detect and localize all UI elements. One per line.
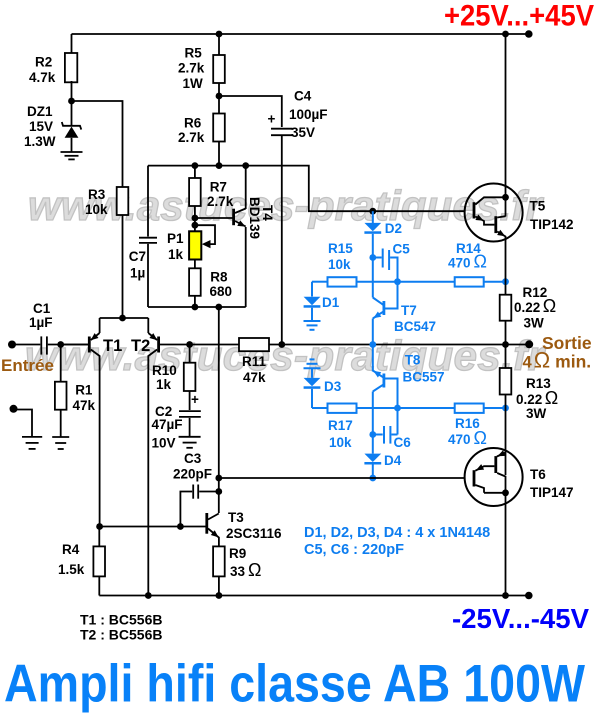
node: box top left junction R7	[192, 162, 199, 169]
svg-text:P1: P1	[167, 231, 184, 246]
svg-text:T5: T5	[530, 199, 546, 214]
node: box top right junction	[242, 162, 249, 169]
svg-text:3W: 3W	[524, 316, 545, 331]
node: R14 tap on output line	[502, 278, 509, 285]
svg-text:BC547: BC547	[394, 319, 436, 334]
wire: R17/R16 rail	[312, 407, 328, 409]
svg-text:D4: D4	[384, 453, 402, 468]
wire: blue center line D2 segment	[372, 211, 374, 223]
resistor R10	[189, 345, 191, 363]
node: R5/R6 junction	[216, 93, 223, 100]
svg-text:R17: R17	[328, 418, 353, 433]
svg-text:33Ω: 33Ω	[230, 560, 262, 580]
resistor R5	[213, 55, 225, 83]
svg-text:0.22Ω: 0.22Ω	[516, 388, 558, 408]
transistor T3	[205, 513, 219, 546]
svg-text:R5: R5	[185, 46, 203, 61]
svg-text:T1 : BC556B: T1 : BC556B	[80, 611, 162, 627]
svg-text:Ampli hifi classe AB 100W: Ampli hifi classe AB 100W	[4, 655, 585, 714]
svg-text:BC557: BC557	[403, 369, 445, 384]
svg-text:R4: R4	[62, 542, 80, 557]
svg-text:T2: T2	[131, 337, 150, 355]
node: T1 collector / R4	[96, 523, 103, 530]
inverted ground above D3 (blue)	[304, 359, 321, 368]
node: top rail terminal	[525, 30, 533, 38]
node: blue tap on lower bias rail	[369, 475, 376, 482]
node: C6 tap	[369, 431, 376, 438]
svg-text:R15: R15	[328, 241, 353, 256]
node: junction to lower bias rail	[215, 475, 222, 482]
wire: box right side upper (T4 collector)	[245, 166, 247, 209]
resistor R8	[194, 260, 196, 269]
node: R7 bottom / T4 base	[192, 215, 199, 222]
resistor R15	[328, 277, 357, 286]
svg-text:DZ1: DZ1	[27, 104, 53, 119]
resistor R14	[455, 277, 484, 286]
capacitor C5	[373, 249, 398, 309]
transistor T7	[373, 298, 386, 319]
svg-text:T2 : BC556B: T2 : BC556B	[80, 627, 162, 643]
capacitor C4	[271, 129, 293, 136]
svg-text:1.5k: 1.5k	[58, 562, 85, 577]
svg-text:4Ωmin.: 4Ωmin.	[523, 348, 592, 373]
node: junction C3	[215, 488, 222, 495]
resistor R2	[65, 53, 77, 82]
svg-text:47k: 47k	[243, 370, 266, 385]
node: blue tap on output mid rail	[369, 341, 376, 348]
wire: C1 to T1 base	[48, 344, 89, 346]
wire: T3 collector vertical line	[218, 307, 220, 513]
svg-text:R2: R2	[35, 55, 52, 70]
node: C4 junction mid rail	[278, 341, 285, 348]
ground below DZ1	[61, 152, 83, 159]
potentiometer P1	[189, 225, 215, 259]
resistor R9	[213, 546, 225, 576]
ground below R1	[52, 437, 69, 449]
svg-text:2.7k: 2.7k	[207, 194, 234, 209]
wire: top supply rail	[72, 33, 529, 35]
transistor T4	[195, 209, 246, 227]
wire: DZ1 node to R3	[72, 101, 123, 187]
node: bottom rail R9	[216, 592, 223, 599]
svg-text:R9: R9	[229, 546, 246, 561]
node: top rail junction R5	[216, 31, 223, 38]
wire: T8 base wire	[385, 379, 398, 435]
resistor R3	[117, 187, 129, 215]
wire: D4 to lower bias rail	[372, 465, 374, 479]
wire: T4 collector node to T5 base	[246, 166, 465, 212]
node: emitter rail junction R3	[119, 315, 126, 322]
input ground terminal	[10, 405, 18, 413]
wire: lower bias rail T3 to T6 base	[219, 477, 465, 479]
wire: R5 top stub	[218, 34, 220, 55]
svg-text:220pF: 220pF	[173, 467, 212, 482]
wire: R3 bottom to T1/T2 emitter node	[122, 215, 124, 318]
node: box bottom junction to T3 collector line	[215, 304, 222, 311]
svg-text:C5, C6 : 220pF: C5, C6 : 220pF	[304, 542, 404, 558]
capacitor C1	[41, 336, 47, 354]
svg-text:+: +	[268, 112, 276, 127]
svg-text:R3: R3	[88, 187, 106, 202]
resistor R16	[455, 404, 484, 413]
svg-text:470Ω: 470Ω	[448, 428, 487, 448]
svg-text:TIP147: TIP147	[530, 485, 574, 500]
svg-text:1.3W: 1.3W	[24, 134, 56, 149]
diode D2	[364, 223, 381, 234]
wire: R2 bottom to DZ1 node	[71, 81, 73, 126]
node: box top junction R6	[216, 162, 223, 169]
resistor R4	[98, 527, 100, 547]
svg-text:35V: 35V	[291, 125, 315, 140]
node: bottom rail terminal	[525, 592, 533, 600]
svg-text:C5: C5	[393, 242, 411, 257]
svg-text:1k: 1k	[156, 377, 172, 392]
svg-text:BD139: BD139	[247, 197, 262, 239]
node: R16 tap on output line	[502, 405, 509, 412]
svg-text:T1: T1	[103, 337, 122, 355]
svg-text:2.7k: 2.7k	[178, 130, 205, 145]
svg-text:2.7k: 2.7k	[178, 61, 205, 76]
svg-text:R10: R10	[152, 363, 177, 378]
capacitor C3	[180, 485, 218, 527]
node: top rail junction T5 collector	[502, 31, 509, 38]
wire: T8 collector to D4	[372, 392, 374, 454]
svg-text:C4: C4	[294, 89, 312, 104]
wire: T1/T2 emitter rail	[100, 317, 149, 319]
zener diode DZ1	[62, 122, 82, 152]
transistor T2	[148, 318, 239, 596]
svg-text:Entrée: Entrée	[1, 356, 54, 375]
svg-text:10k: 10k	[328, 257, 351, 272]
svg-text:15V: 15V	[29, 119, 53, 134]
node: box bottom junction R8	[192, 304, 199, 311]
capacitor C6	[373, 426, 398, 444]
svg-text:47k: 47k	[73, 398, 96, 413]
svg-text:10k: 10k	[329, 435, 352, 450]
wire: R6 bottom to T4 box top	[218, 142, 220, 166]
diode D4	[364, 454, 381, 465]
ground at input	[22, 437, 42, 449]
wire: bottom supply rail	[99, 595, 529, 597]
diode D1	[304, 282, 321, 321]
svg-text:R6: R6	[184, 116, 202, 131]
svg-text:C6: C6	[394, 435, 412, 450]
svg-text:1k: 1k	[168, 247, 184, 262]
wire: R5 to R6	[218, 83, 220, 114]
node: C5 tap	[369, 254, 376, 261]
svg-text:1µF: 1µF	[29, 315, 53, 330]
svg-text:D1, D2, D3, D4 : 4 x 1N4148: D1, D2, D3, D4 : 4 x 1N4148	[304, 525, 490, 541]
svg-text:47µF: 47µF	[152, 417, 183, 432]
svg-text:1W: 1W	[183, 76, 204, 91]
node: T8 base node on R16/R17 rail	[394, 405, 401, 412]
diode D3	[304, 368, 321, 408]
node: bottom rail T6 collector	[502, 592, 509, 599]
wire: box bottom rail	[148, 306, 246, 308]
transistor T6 (TIP147)	[465, 448, 523, 596]
svg-text:C7: C7	[129, 249, 146, 264]
wire: R2 top stub	[71, 34, 73, 53]
node: bottom rail T2 collector	[145, 592, 152, 599]
svg-text:T3: T3	[228, 510, 244, 525]
transistor T8	[373, 371, 386, 392]
svg-text:TIP142: TIP142	[530, 217, 574, 232]
wire: mid rail right of R11	[269, 344, 529, 346]
wire: T7 emitter to mid rail	[372, 319, 374, 372]
svg-text:D3: D3	[324, 379, 342, 394]
svg-text:R11: R11	[242, 354, 267, 369]
resistor R13	[505, 345, 507, 369]
wire: R15/R14 rail	[312, 281, 328, 283]
resistor R1	[60, 345, 62, 382]
svg-text:R7: R7	[210, 179, 227, 194]
capacitor C2	[179, 411, 201, 417]
svg-text:D1: D1	[322, 295, 340, 310]
wire: T4 bias box top rail	[148, 165, 246, 167]
svg-text:1µ: 1µ	[130, 266, 145, 281]
svg-text:R1: R1	[75, 383, 93, 398]
svg-text:3W: 3W	[526, 406, 547, 421]
node: DZ1 junction	[68, 98, 75, 105]
node: output junction mid rail	[502, 341, 509, 348]
node: R10 junction on mid rail	[186, 341, 193, 348]
svg-text:T8: T8	[405, 353, 421, 368]
svg-text:+: +	[191, 392, 199, 407]
node: T7 base node on R14/R15 rail	[394, 278, 401, 285]
svg-text:T7: T7	[401, 303, 417, 318]
svg-text:+25V...+45V: +25V...+45V	[444, 0, 594, 33]
capacitor C7	[139, 238, 157, 243]
svg-text:D2: D2	[385, 221, 402, 236]
node: C1/R1 junction	[57, 341, 64, 348]
svg-text:T6: T6	[530, 467, 546, 482]
resistor R17	[328, 404, 357, 413]
svg-text:2SC3116: 2SC3116	[226, 526, 282, 541]
wire: R5/R6 junction to C4	[219, 96, 282, 127]
transistor T1	[61, 318, 100, 527]
svg-text:100µF: 100µF	[289, 107, 328, 122]
node: output terminal	[525, 340, 533, 348]
wire: box right side lower (T4 emitter)	[245, 227, 247, 307]
node: D2 tap on T5 base wire	[369, 208, 376, 215]
ground below D1 (blue)	[304, 321, 321, 330]
wire: blue center line to T7 collector	[372, 234, 374, 298]
resistor R6	[213, 114, 225, 142]
svg-text:R8: R8	[210, 269, 228, 284]
svg-text:4.7k: 4.7k	[29, 70, 56, 85]
svg-text:10V: 10V	[152, 436, 176, 451]
svg-text:C3: C3	[184, 451, 202, 466]
resistor R12	[500, 295, 512, 321]
svg-text:680: 680	[210, 284, 233, 299]
resistor R7	[194, 166, 196, 178]
svg-text:-25V...-45V: -25V...-45V	[452, 603, 589, 634]
svg-text:10k: 10k	[85, 202, 108, 217]
transistor T5 (TIP142)	[465, 34, 523, 295]
wire: box left side with C7	[147, 166, 149, 237]
ground below C2	[179, 437, 201, 448]
resistor R11	[239, 338, 269, 351]
svg-text:C1: C1	[33, 301, 51, 316]
node: C3 leg junction	[177, 523, 184, 530]
wire: T1 collector to T3 base	[100, 526, 206, 528]
node: P1 wiper tie	[192, 222, 199, 229]
wire: input terminal to C1	[8, 341, 16, 349]
